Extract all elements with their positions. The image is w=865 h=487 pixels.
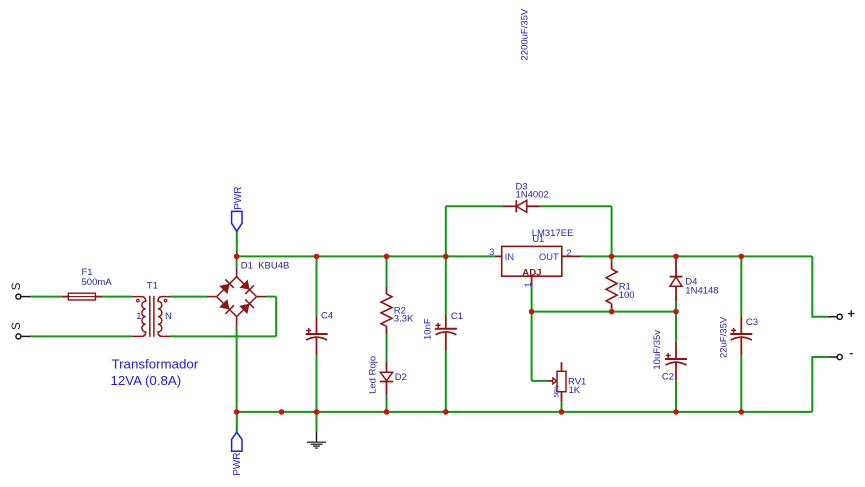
junction C4 bottom / ground — [314, 409, 320, 415]
svg-text:IN: IN — [505, 252, 514, 262]
wire (bottom rail) — [237, 411, 813, 413]
svg-text:22uF/35V: 22uF/35V — [719, 316, 730, 358]
svg-text:2200uF/35V: 2200uF/35V — [519, 8, 530, 60]
svg-text:S: S — [11, 282, 23, 290]
resistor R1 — [606, 256, 634, 311]
svg-text:1K: 1K — [569, 385, 581, 396]
junction D4 bottom / C2 top — [673, 309, 679, 315]
svg-text:PWR: PWR — [233, 186, 244, 209]
resistor R2 — [381, 256, 414, 362]
op-amp U1 (LM317 regulator) — [489, 228, 581, 288]
wire (bridge bottom down) — [236, 327, 238, 412]
svg-text:56%: 56% — [555, 385, 561, 398]
svg-text:3.3K: 3.3K — [394, 314, 414, 325]
junction ADJ node — [529, 309, 535, 315]
svg-text:2: 2 — [566, 248, 571, 259]
junction R2 top — [384, 254, 390, 260]
svg-text:1: 1 — [136, 311, 141, 322]
junction RV1 bottom — [559, 409, 565, 415]
svg-text:C1: C1 — [451, 311, 463, 322]
capacitor C3 — [719, 256, 759, 412]
svg-text:ADJ: ADJ — [522, 268, 541, 279]
svg-text:500mA: 500mA — [82, 277, 113, 288]
svg-text:D2: D2 — [395, 372, 407, 383]
ground — [307, 412, 326, 448]
terminal + output — [828, 310, 855, 319]
junction D4 top — [673, 254, 679, 260]
junction bridge output / PWR node — [234, 254, 240, 260]
svg-text:S: S — [11, 322, 23, 330]
svg-text:Transformador: Transformador — [112, 356, 199, 371]
svg-text:C3: C3 — [746, 317, 758, 328]
capacitor C1 — [423, 256, 464, 412]
junction bridge negative / PWR bottom node — [234, 409, 240, 415]
wire S2 to T1 primary bottom — [30, 335, 131, 337]
svg-text:PWR: PWR — [232, 452, 243, 475]
wire (ADJ down) — [531, 286, 533, 311]
svg-text:12VA (0.8A): 12VA (0.8A) — [111, 373, 182, 388]
diode D4 — [670, 256, 719, 311]
svg-text:C2: C2 — [662, 372, 674, 383]
wire S1 to fuse — [30, 296, 61, 298]
junction C3 top — [739, 254, 745, 260]
svg-text:100: 100 — [619, 290, 635, 301]
svg-text:C4: C4 — [321, 311, 333, 322]
svg-text:OUT: OUT — [539, 252, 559, 262]
svg-text:Led Rojo: Led Rojo — [367, 356, 378, 394]
junction C3 bottom — [739, 409, 745, 415]
capacitor C4 — [306, 256, 334, 412]
junction D2 bottom — [384, 409, 390, 415]
junction C2 bottom — [673, 409, 679, 415]
junction OUT / D3 right / R1 top — [609, 254, 615, 260]
terminal - output — [828, 354, 853, 360]
terminal S1 — [11, 282, 31, 299]
wire (out rail) — [581, 255, 812, 257]
svg-text:1N4148: 1N4148 — [685, 285, 718, 296]
junction C1 bottom — [443, 409, 449, 415]
diode D3 loop wires — [445, 206, 447, 256]
wire (bridge top to rail) — [236, 256, 238, 266]
junction wire end on ground rail — [279, 409, 285, 415]
power terminal PWR (bottom) — [232, 412, 244, 476]
wire (to - terminal) — [812, 357, 828, 412]
potentiometer RV1 — [532, 312, 587, 412]
svg-text:T1: T1 — [147, 280, 158, 291]
wire fuse to T1 primary top — [102, 296, 132, 298]
wire (secondary bottom to bridge right, U shape) — [170, 335, 276, 337]
capacitor C2 — [652, 312, 687, 412]
junction C4 top — [314, 254, 320, 260]
wire (to + terminal) — [812, 256, 828, 316]
svg-text:10nF: 10nF — [423, 318, 434, 340]
svg-text:N: N — [165, 311, 172, 322]
svg-text:1N4002: 1N4002 — [516, 189, 549, 200]
wire (top rail) — [237, 255, 495, 257]
power terminal PWR (top) — [232, 186, 245, 256]
junction R1 bottom — [609, 309, 615, 315]
wire (ADJ rail) — [532, 311, 676, 313]
junction C1 / D3 left / IN node — [443, 254, 449, 260]
svg-text:D1 KBU4B: D1 KBU4B — [241, 261, 290, 272]
LED D2 — [367, 356, 407, 412]
svg-text:3: 3 — [489, 247, 494, 258]
transformer T1 — [132, 280, 172, 337]
fuse F1 — [62, 267, 113, 300]
wire T1 secondary top to bridge left — [170, 296, 207, 298]
svg-text:10uF/35v: 10uF/35v — [652, 330, 663, 370]
svg-text:U1: U1 — [532, 234, 544, 245]
terminal S2 — [11, 322, 31, 339]
bridge rectifier D1 KBU4B — [207, 261, 289, 327]
diode D3 — [502, 181, 549, 212]
